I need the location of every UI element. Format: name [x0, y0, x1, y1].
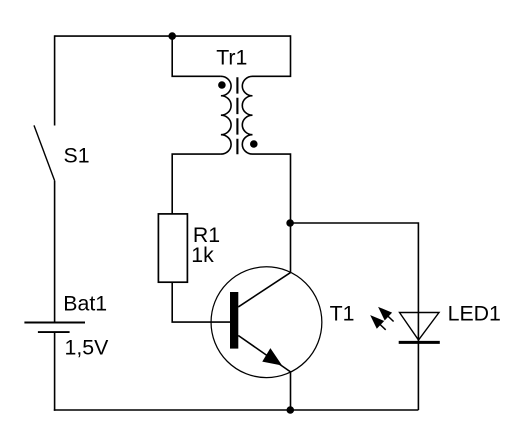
wire resistor to base: [171, 282, 230, 322]
LED1 wire vertical: [417, 313, 419, 411]
transformer primary phase dot: [218, 81, 226, 89]
battery Bat1 negative plate: [38, 331, 70, 333]
LED1 emission arrow upper: [379, 308, 394, 322]
svg-text:S1: S1: [64, 143, 90, 167]
wire top rail: [55, 35, 291, 37]
wire left vertical middle: [54, 181, 56, 323]
node junction top: [168, 32, 176, 40]
svg-text:Tr1: Tr1: [216, 45, 247, 69]
node junction emitter bottom: [287, 406, 295, 414]
resistor R1: [158, 214, 187, 282]
wire left vertical upper: [54, 35, 56, 125]
svg-text:LED1: LED1: [448, 302, 501, 326]
wire transformer primary bottom to resistor: [171, 153, 221, 214]
svg-text:T1: T1: [330, 302, 355, 326]
transistor T1 emitter arrow: [263, 349, 281, 365]
transformer core: [236, 77, 238, 154]
wire transformer secondary bottom to collector: [253, 153, 292, 272]
svg-text:1,5V: 1,5V: [65, 336, 110, 360]
switch S1: [34, 125, 55, 180]
wire bottom rail: [54, 409, 419, 411]
transistor T1 base bar: [230, 292, 238, 349]
battery Bat1 positive plate: [24, 322, 85, 324]
LED1 emission arrow lower: [371, 316, 386, 330]
wire emitter to bottom rail: [290, 372, 292, 410]
transistor T1 collector lead: [238, 273, 290, 307]
wire transformer primary top drop: [171, 36, 221, 77]
LED1 triangle: [400, 313, 440, 341]
wire left vertical lower: [54, 332, 56, 411]
svg-text:Bat1: Bat1: [63, 292, 107, 316]
transformer secondary phase dot: [250, 140, 258, 148]
LED1 cathode bar: [399, 341, 440, 344]
transformer Tr1 secondary winding: [242, 76, 252, 154]
transistor T1 emitter lead: [238, 336, 290, 372]
transformer Tr1 primary winding: [221, 76, 231, 154]
svg-text:1k: 1k: [191, 243, 214, 267]
wire transformer secondary top drop: [253, 35, 292, 77]
wire collector branch to LED: [290, 222, 418, 312]
node junction collector branch: [286, 219, 294, 227]
transistor T1 body: [211, 267, 322, 378]
